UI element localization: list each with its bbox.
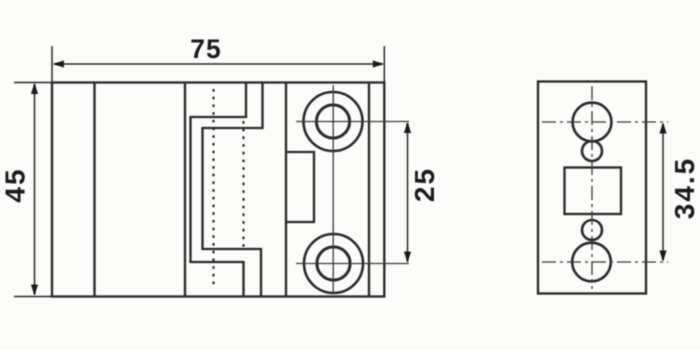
hole H1 horizontal center line (296, 121, 409, 123)
front view vertical line right leaf inner (285, 83, 287, 297)
side view square cutout (565, 168, 622, 215)
arrowhead 75 left (53, 60, 64, 67)
knuckle cut inner step path (203, 83, 263, 297)
small tab rectangle (286, 152, 314, 222)
side view hole S4 large circle (572, 243, 611, 282)
dimension 45 extension line bottom (14, 296, 52, 298)
hole H2 horizontal center line (296, 263, 409, 265)
hidden edge dotted line 1 (212, 90, 214, 290)
arrowhead 34.5 down (659, 251, 666, 262)
side view vertical center line (591, 86, 593, 289)
dimension 34.5 line (662, 124, 664, 260)
hole H1 inner circle (316, 105, 349, 138)
dimension 75 extension line right (383, 46, 385, 83)
arrowhead 45 down (31, 285, 38, 296)
hidden edge dotted line 2 (242, 122, 244, 252)
front view inner vertical line left leaf (93, 83, 95, 297)
svg-text:45: 45 (0, 167, 31, 202)
svg-text:75: 75 (190, 34, 221, 64)
front view outer outline (52, 83, 384, 297)
side view outline (538, 82, 646, 294)
arrowhead 25 down (404, 252, 411, 263)
side view top hole center line (542, 121, 668, 123)
hole H2 inner circle (317, 247, 350, 280)
front view vertical line right leaf outer (368, 83, 370, 297)
side view small circle S2 (582, 141, 602, 161)
dimension 75 extension line left (51, 46, 53, 83)
dimension 45 line (34, 84, 36, 295)
arrowhead 75 right (373, 60, 384, 67)
side view small circle S3 (582, 220, 602, 240)
svg-text:34.5: 34.5 (669, 157, 700, 220)
front view vertical line left leaf right edge (184, 83, 186, 297)
svg-text:25: 25 (409, 167, 440, 202)
side view hole S1 large circle (573, 103, 612, 142)
hole H1 outer circle (304, 92, 363, 151)
arrowhead 25 up (404, 122, 411, 133)
hole vertical center line (332, 85, 334, 293)
dimension 25 line (407, 123, 409, 262)
knuckle cut outer step path (191, 83, 247, 297)
dimension 45 extension line top (14, 82, 52, 84)
side view bottom hole center line (542, 261, 668, 263)
dimension 75 line (54, 63, 383, 65)
hole H2 outer circle (304, 234, 363, 293)
arrowhead 45 up (31, 83, 38, 94)
arrowhead 34.5 up (659, 123, 666, 134)
